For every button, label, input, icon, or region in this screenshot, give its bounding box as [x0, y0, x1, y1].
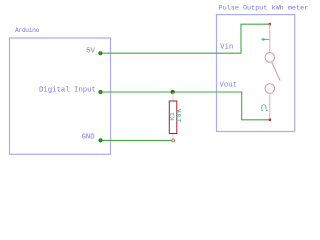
svg-text:Vout: Vout	[220, 82, 238, 90]
module box U1 Arduino	[10, 38, 111, 154]
R1 bottom lead	[172, 133, 174, 139]
wire net Vout (meter switch bottom to Arduino Digital Input)	[100, 92, 270, 120]
S1 top terminal dot	[268, 23, 271, 26]
svg-text:Arduino: Arduino	[15, 27, 40, 34]
S1 bottom lead	[269, 93, 271, 120]
wire net GND (Arduino GND to R1 bottom)	[101, 139, 172, 141]
junction node (R1 top on Vout net)	[171, 90, 175, 94]
pin Arduino 5V	[99, 52, 102, 55]
svg-text:10K: 10K	[176, 108, 184, 123]
svg-text:Vin: Vin	[220, 43, 233, 51]
switch S1 pulse output contact	[261, 23, 280, 121]
wire net 5V (Arduino 5V to meter Vin switch top)	[100, 24, 269, 53]
R1 top lead	[172, 93, 174, 102]
pin Arduino GND	[99, 139, 102, 142]
svg-text:Digital Input: Digital Input	[39, 86, 96, 94]
R1 bottom pin circle	[172, 139, 175, 142]
svg-text:Pulse Output kWh meter: Pulse Output kWh meter	[219, 4, 309, 12]
R1 body	[169, 101, 177, 134]
module box U2 Pulse Output kWh meter	[217, 15, 295, 132]
S1 top lead	[269, 24, 271, 53]
S1 bottom terminal dot	[269, 118, 272, 121]
S1 upper contact circle	[265, 53, 275, 63]
svg-text:5V: 5V	[86, 47, 95, 55]
pin Arduino Digital Input	[99, 90, 102, 93]
resistor R1	[169, 93, 184, 142]
S1 lower contact circle	[265, 84, 275, 94]
pin number 2	[261, 105, 267, 111]
svg-text:GND: GND	[81, 133, 95, 141]
S1 lever	[272, 62, 280, 80]
pin number 1	[262, 38, 270, 40]
